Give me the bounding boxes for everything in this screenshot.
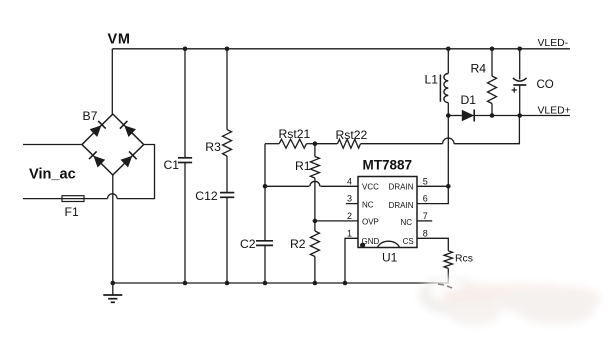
pin label NC right	[400, 218, 412, 227]
label C12	[195, 189, 218, 203]
svg-text:CO: CO	[537, 79, 554, 91]
svg-text:3: 3	[347, 194, 352, 204]
svg-text:OVP: OVP	[362, 218, 379, 227]
label VLED-	[538, 38, 569, 49]
svg-text:DRAIN: DRAIN	[389, 201, 414, 210]
resistor R4	[488, 49, 497, 116]
bridge diode bottom-right	[121, 151, 137, 167]
label VM	[108, 32, 131, 48]
bridge diode bottom-left	[89, 151, 105, 167]
bridge diode top-left	[90, 121, 106, 137]
svg-text:5: 5	[423, 176, 428, 186]
svg-text:VLED-: VLED-	[538, 38, 569, 49]
inductor L1	[440, 49, 448, 116]
svg-text:R4: R4	[471, 62, 487, 76]
svg-text:R2: R2	[290, 237, 306, 251]
pin label DRAIN bottom	[389, 201, 414, 210]
svg-text:7: 7	[423, 211, 428, 221]
svg-text:L1: L1	[425, 73, 439, 87]
label R2	[290, 237, 306, 251]
svg-text:Rcs: Rcs	[455, 254, 473, 265]
pin label OVP	[362, 218, 379, 227]
wire bridge bottom to ground rail	[112, 175, 114, 283]
svg-text:Rst21: Rst21	[279, 127, 311, 141]
U1 bottom notch	[378, 241, 400, 247]
node gnd-C1 junction	[183, 281, 188, 286]
wire Rst21 left drop	[264, 144, 266, 241]
node gnd-bridge junction	[111, 281, 116, 286]
resistor Rst22	[315, 139, 443, 148]
svg-text:B7: B7	[83, 109, 98, 123]
node VLED+-CO junction	[517, 113, 522, 118]
node gnd-R3 junction	[225, 281, 230, 286]
node VM-C1 junction	[183, 47, 188, 52]
label Vin_ac	[29, 167, 76, 183]
svg-text:VM: VM	[108, 32, 131, 48]
resistor R3	[223, 49, 232, 193]
pin label CS	[403, 237, 414, 246]
resistor Rst21	[265, 139, 315, 148]
svg-text:C12: C12	[195, 189, 218, 203]
pin number 6	[423, 194, 428, 204]
pin 4 stub	[0, 0, 1, 1]
label R1	[295, 159, 311, 173]
pin number 7	[423, 211, 428, 221]
label R3	[205, 140, 221, 154]
label B7	[83, 109, 98, 123]
resistor R2	[310, 221, 319, 283]
label D1	[461, 93, 477, 107]
pin number 8	[423, 228, 428, 238]
svg-text:VLED+: VLED+	[538, 105, 571, 116]
node VM-CO junction	[517, 47, 522, 52]
pin 1 wire to ground	[345, 238, 358, 283]
node Rst21-Rst22-R1 junction	[313, 141, 318, 146]
svg-text:Vin_ac: Vin_ac	[29, 167, 76, 183]
svg-text:VCC: VCC	[362, 183, 379, 192]
U1 pin-1 indicator dot	[360, 243, 365, 248]
svg-text:D1: D1	[461, 93, 477, 107]
fuse F1	[62, 196, 84, 202]
node drain junction	[446, 184, 451, 189]
svg-text:R3: R3	[205, 140, 221, 154]
watermark blob	[419, 276, 600, 325]
label CO	[537, 79, 554, 91]
pin label GND	[362, 237, 380, 246]
capacitor C1	[178, 49, 192, 283]
svg-text:8: 8	[423, 228, 428, 238]
node VLED+-R4 junction	[490, 113, 495, 118]
svg-text:C2: C2	[240, 237, 256, 251]
resistor R1	[310, 144, 319, 221]
label R4	[471, 62, 487, 76]
node gnd-C2 junction	[263, 281, 268, 286]
svg-text:6: 6	[423, 194, 428, 204]
svg-text:F1: F1	[65, 205, 79, 219]
pin number 5	[423, 176, 428, 186]
label Rcs	[455, 254, 473, 265]
wire hop over ground drop	[108, 194, 118, 199]
pin label DRAIN top	[389, 183, 414, 192]
svg-text:NC: NC	[400, 218, 412, 227]
capacitor C2	[256, 241, 273, 283]
ground symbol	[103, 283, 122, 302]
bridge rectifier B7 outline	[82, 114, 144, 175]
wire ground rail	[113, 282, 449, 284]
label C1	[164, 158, 180, 172]
label Rst22	[336, 128, 368, 142]
label L1	[425, 73, 439, 87]
node gnd-U1 junction	[343, 281, 348, 286]
pin 5 wire	[417, 185, 448, 187]
node gnd-R2 junction	[313, 281, 318, 286]
pin number 4	[347, 176, 352, 186]
svg-text:GND: GND	[362, 237, 380, 246]
resistor Rcs	[444, 251, 452, 283]
svg-text:2: 2	[347, 211, 352, 221]
node VM-R3 junction	[225, 47, 230, 52]
pin label NC left	[362, 200, 374, 209]
wire AC line 2 left segment	[23, 198, 62, 200]
label C2	[240, 237, 256, 251]
pin number 1	[347, 228, 352, 238]
pin number 2	[347, 211, 352, 221]
wire VM rail drop to bridge	[111, 49, 113, 114]
wire VCC line	[265, 181, 358, 186]
pin 6 wire	[417, 186, 448, 203]
svg-text:C1: C1	[164, 158, 180, 172]
label VLED+	[538, 105, 571, 116]
pin number 3	[347, 194, 352, 204]
label U1	[382, 250, 398, 264]
node VM-L1 junction	[446, 47, 451, 52]
node VLED+ L1/D1 junction	[446, 113, 451, 118]
svg-text:4: 4	[347, 176, 352, 186]
node VCC-C2 junction	[263, 184, 268, 189]
svg-text:Rst22: Rst22	[336, 128, 368, 142]
label MT7887	[363, 158, 413, 173]
pin 3 stub NC	[346, 203, 358, 205]
wire drain to VLED+ node	[447, 116, 449, 187]
wire VM top rail	[112, 48, 570, 50]
capacitor CO	[513, 49, 527, 116]
svg-text:R1: R1	[295, 159, 311, 173]
wire hop over drain line	[443, 138, 454, 144]
node VM-R4 junction	[490, 47, 495, 52]
diode D1	[448, 110, 492, 122]
wire OVP line	[315, 220, 358, 222]
svg-text:NC: NC	[362, 200, 374, 209]
wire AC line 2 right of hop	[117, 145, 154, 199]
capacitor C12	[220, 193, 234, 283]
wire AC input line 1	[23, 144, 82, 146]
CO plus sign	[512, 87, 517, 92]
svg-text:MT7887: MT7887	[363, 158, 413, 173]
label Rst21	[279, 127, 311, 141]
bridge diode top-right	[120, 121, 136, 137]
wire Rst22 to VLED+ node	[454, 116, 519, 144]
svg-text:1: 1	[347, 228, 352, 238]
svg-text:U1: U1	[382, 250, 398, 264]
svg-text:CS: CS	[403, 237, 414, 246]
pin label VCC	[362, 183, 379, 192]
node OVP-R1-R2 junction	[313, 219, 318, 224]
op-amp U1 MT7887 box	[358, 177, 417, 248]
pin 7 stub NC	[417, 220, 432, 222]
wire AC line 2 to hop	[84, 198, 108, 200]
wire VLED+ line	[492, 115, 570, 117]
svg-text:DRAIN: DRAIN	[389, 183, 414, 192]
pin 8 wire to Rcs	[417, 238, 448, 251]
label F1	[65, 205, 79, 219]
